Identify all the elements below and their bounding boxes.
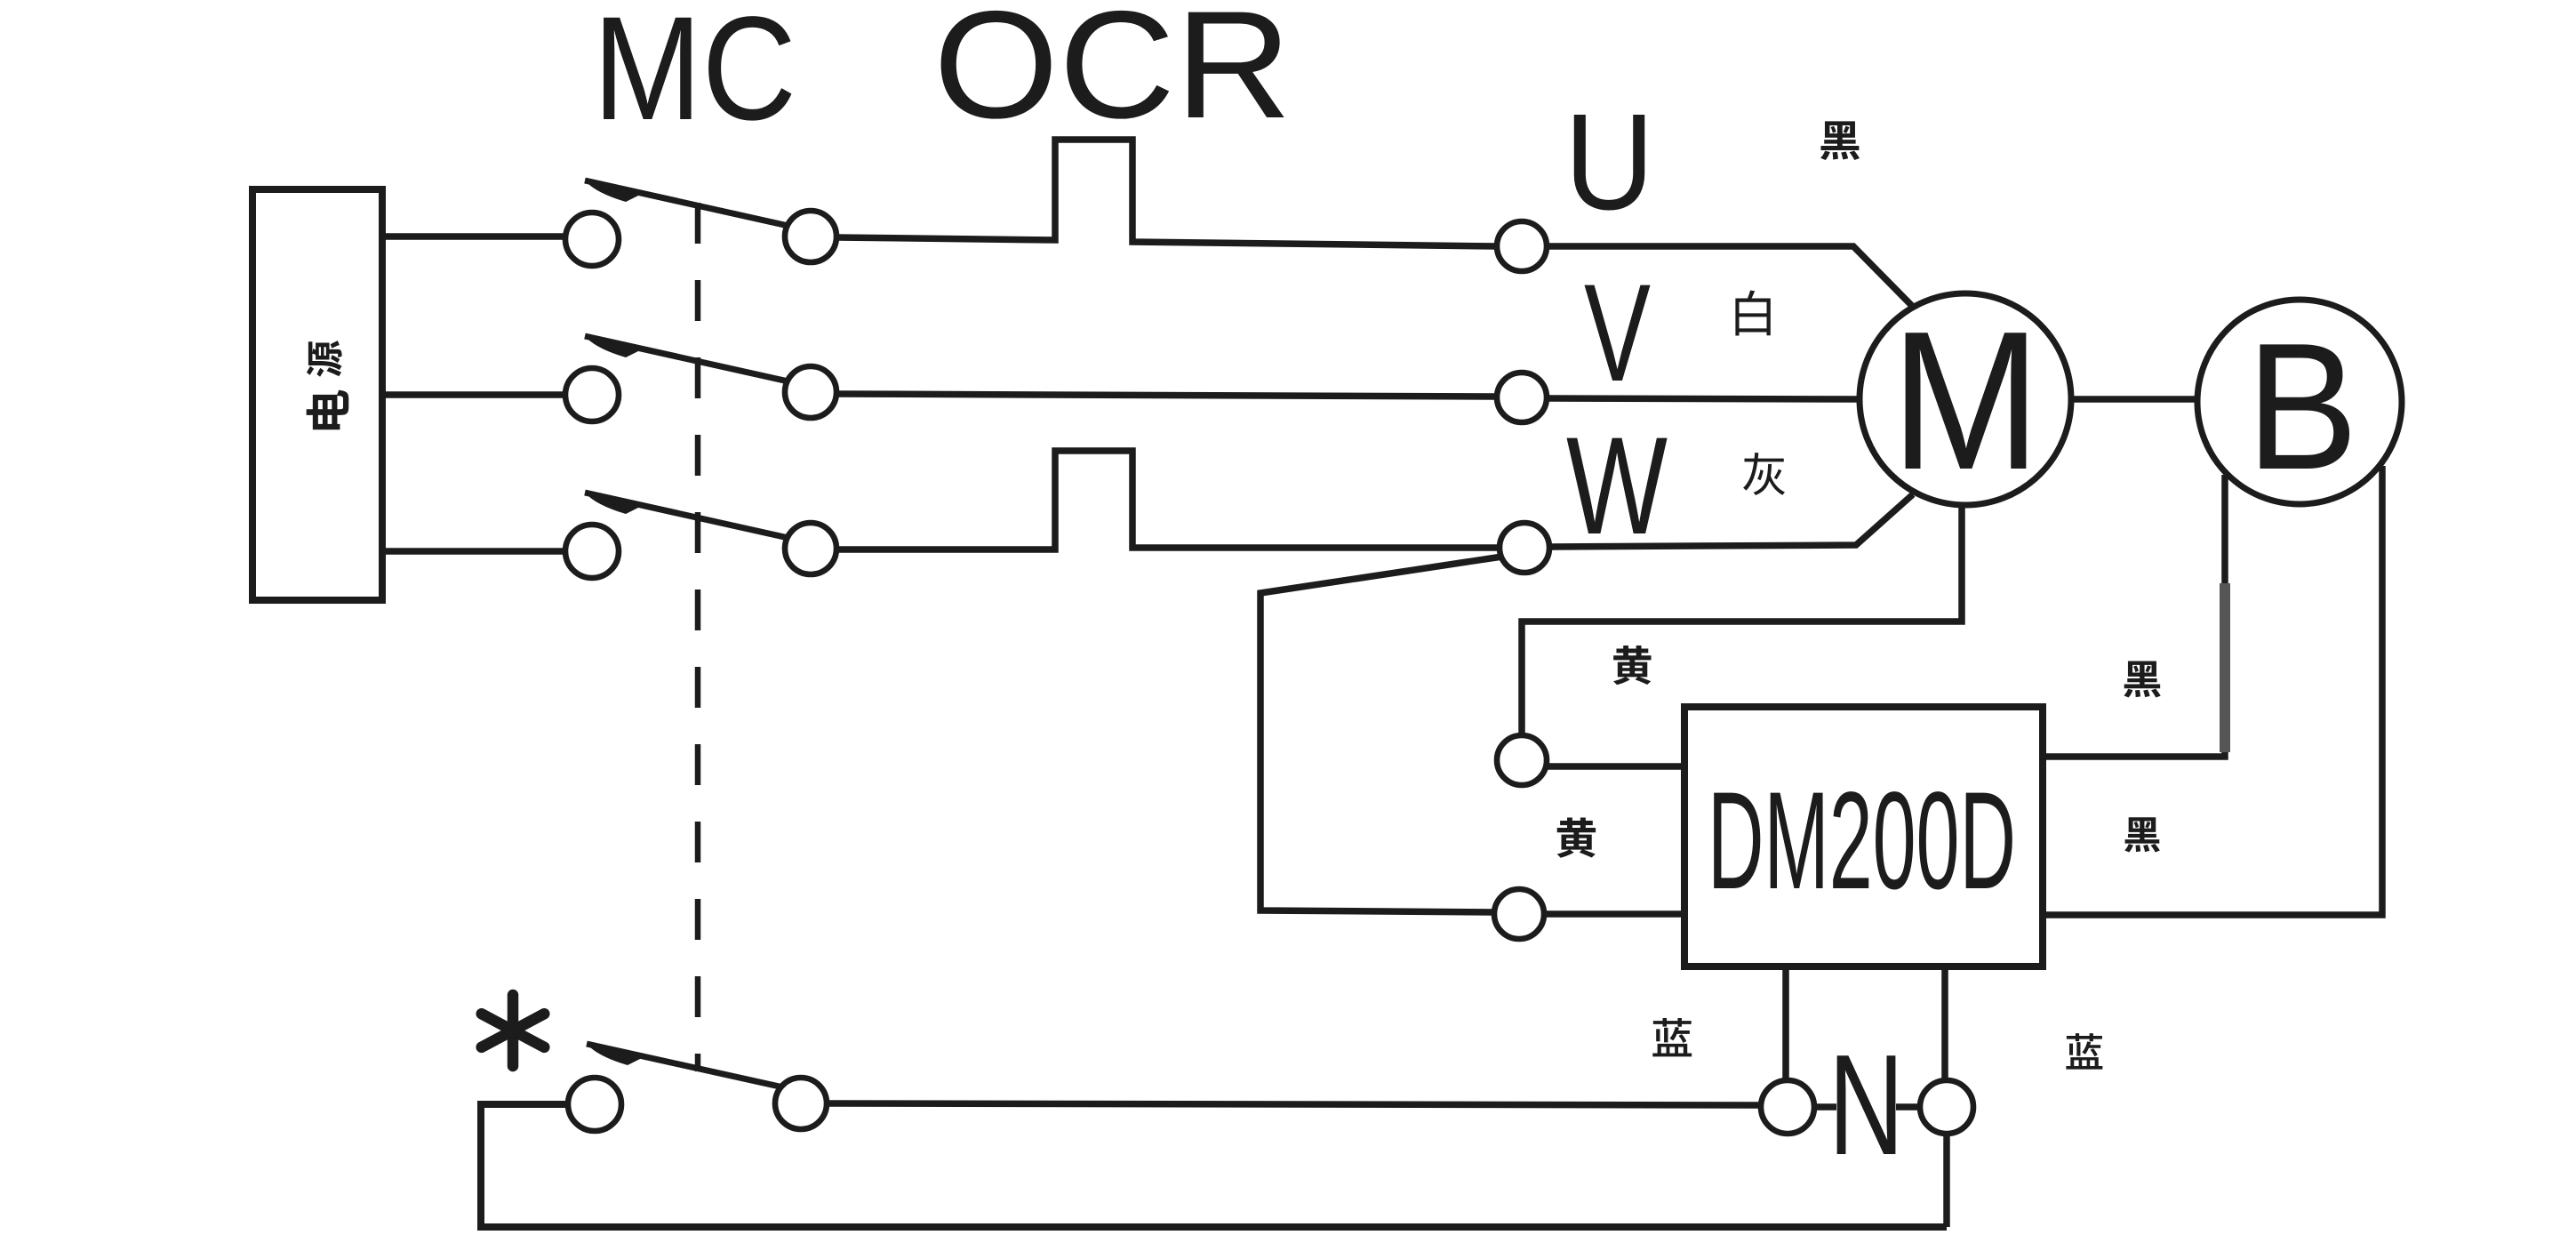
terminal V xyxy=(1497,373,1547,422)
motor M xyxy=(1860,293,2071,505)
wire: DM200D to N right terminal xyxy=(1941,966,1948,1081)
svg-text:N: N xyxy=(1828,1025,1904,1185)
MC linkage dashed line xyxy=(695,203,701,1071)
MC pole2 switch xyxy=(585,336,804,385)
label 黄 (lower) xyxy=(1557,817,1596,857)
power source box 电源 xyxy=(252,189,382,600)
label 蓝 (left) xyxy=(1652,1018,1692,1056)
svg-text:DM200D: DM200D xyxy=(1708,764,2016,918)
label 黑 (upper brake wire) xyxy=(2124,662,2160,698)
label 黑 (U wire) xyxy=(1820,121,1860,160)
grey scan artifact on lead xyxy=(2220,583,2230,752)
label 电源 (rotated) xyxy=(307,341,342,377)
MC pole1 switch xyxy=(585,180,804,229)
N terminal left xyxy=(1761,1080,1814,1134)
MC pole3 switch xyxy=(585,493,804,541)
label 白 (V wire) xyxy=(1735,290,1770,335)
wire: DM200D lower to B right lead xyxy=(2043,466,2382,915)
svg-text:W: W xyxy=(1566,409,1668,564)
label 黑 (lower brake wire) xyxy=(2124,817,2160,852)
wire: source to MC pole3 xyxy=(380,548,566,555)
wire U to motor xyxy=(1547,246,1913,307)
interlock switch * xyxy=(587,1044,788,1088)
terminal U xyxy=(1497,221,1547,271)
brake B xyxy=(2197,300,2402,504)
label * (asterisk) xyxy=(482,995,545,1066)
wire row2 xyxy=(836,394,1497,397)
svg-text:U: U xyxy=(1564,85,1654,238)
wire: * switch to N left terminal xyxy=(827,1103,1762,1105)
N stubs xyxy=(1814,1103,1836,1111)
rectifier DM200D box xyxy=(1684,707,2043,966)
terminal W xyxy=(1500,523,1549,573)
stub to DM200D xyxy=(1543,910,1688,918)
label 灰 (W wire) xyxy=(1743,453,1785,495)
wire: source to MC pole1 xyxy=(380,233,566,240)
wire: W tap down to yellow terminal 2 xyxy=(1260,557,1502,912)
wire: source to MC pole2 xyxy=(380,391,566,398)
svg-text:OCR: OCR xyxy=(933,0,1292,150)
wire: motor bottom to yellow terminal 1 xyxy=(1522,503,1962,737)
bottom rail wire xyxy=(481,1104,1947,1227)
wire + OCR heater bump row3 xyxy=(836,451,1500,549)
svg-text:M: M xyxy=(1891,291,2041,511)
wire: DM200D upper to B left lead xyxy=(2043,475,2225,757)
label 蓝 (right) xyxy=(2066,1033,2102,1069)
label 黄 (upper) xyxy=(1613,646,1652,685)
wire V to motor xyxy=(1547,398,1863,399)
wire: DM200D to N left terminal xyxy=(1782,966,1789,1081)
stub to DM200D xyxy=(1546,763,1688,770)
shaft wire M to B xyxy=(2071,396,2197,403)
N terminal right xyxy=(1920,1080,1973,1134)
svg-text:MC: MC xyxy=(593,0,796,151)
wire: N right terminal to bottom rail xyxy=(1943,1134,1950,1227)
wire + OCR heater bump row1 xyxy=(836,140,1497,246)
yellow terminal 2 xyxy=(1494,889,1544,939)
wire W to motor xyxy=(1549,494,1913,547)
yellow terminal 1 xyxy=(1497,735,1547,785)
svg-text:B: B xyxy=(2246,306,2358,508)
svg-text:V: V xyxy=(1584,256,1651,411)
